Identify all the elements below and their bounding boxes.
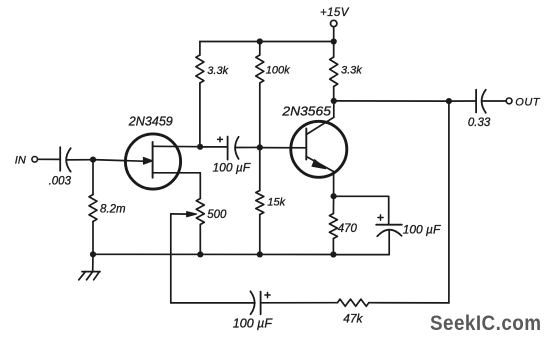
svg-text:OUT: OUT — [515, 97, 541, 109]
wire JFET source down to potentiometer — [199, 173, 201, 199]
svg-text:8.2m: 8.2m — [100, 204, 126, 216]
wire ground rail — [93, 253, 333, 255]
svg-text:15k: 15k — [267, 196, 285, 208]
svg-text:100 µF: 100 µF — [403, 222, 441, 236]
wire BJT emitter down to emitter node — [333, 172, 335, 197]
transistor Q2 2N3565 — [291, 117, 347, 177]
junction dot 15k / ground rail — [257, 251, 263, 257]
wire base node to BJT base — [260, 147, 307, 149]
resistor 8.2m — [89, 160, 97, 255]
ground — [79, 254, 100, 279]
wire top supply rail — [200, 41, 334, 43]
svg-text:100 µF: 100 µF — [213, 161, 251, 175]
junction dot top rail / +15V — [331, 38, 337, 44]
wire right feedback to 47k — [369, 302, 449, 304]
wire input capacitor to gate node — [66, 159, 93, 161]
capacitor 100 uF feedback — [250, 291, 270, 314]
wire wiper down to feedback line — [170, 214, 172, 303]
junction dot collector node — [331, 98, 337, 104]
svg-text:.003: .003 — [49, 175, 72, 187]
junction dot base node — [257, 144, 263, 150]
svg-text:3.3k: 3.3k — [341, 65, 362, 77]
potentiometer 500 — [171, 199, 205, 255]
power terminal +15V — [331, 20, 337, 26]
resistor 100k — [256, 42, 264, 148]
junction dot drain node — [197, 144, 203, 150]
capacitor 100 uF interstage — [218, 137, 239, 160]
svg-text:470: 470 — [338, 223, 358, 235]
svg-text:100 µF: 100 µF — [233, 317, 274, 331]
capacitor 100 uF emitter bypass — [376, 215, 402, 236]
wire output capacitor to OUT terminal — [482, 100, 506, 102]
resistor 470 — [329, 196, 337, 254]
junction dot 470 / ground rail — [330, 251, 336, 257]
resistor 3.3k (left, drain load) — [196, 42, 204, 147]
junction dot top rail / 100k — [257, 38, 263, 44]
svg-text:2N3565: 2N3565 — [281, 103, 332, 118]
terminal IN — [32, 157, 38, 163]
junction dot ground rail left — [90, 251, 96, 257]
wire feedback capacitor to wiper line — [171, 302, 255, 304]
resistor 47k — [337, 299, 368, 306]
capacitor .003 — [60, 147, 70, 172]
junction dot gate node — [90, 157, 96, 163]
wire IN terminal to input capacitor — [38, 158, 61, 160]
capacitor 0.33 — [476, 90, 486, 113]
wire 47k to feedback capacitor — [261, 302, 338, 304]
junction dot output node — [446, 98, 452, 104]
svg-text:IN: IN — [15, 155, 26, 167]
wire +15V terminal to top rail — [333, 27, 335, 42]
svg-text:+15V: +15V — [320, 7, 350, 19]
resistor 3.3k (right, collector load) — [330, 42, 338, 101]
wire bypass capacitor bottom to ground rail — [333, 230, 389, 255]
wire emitter node to bypass capacitor top — [334, 196, 389, 224]
svg-text:100k: 100k — [266, 65, 290, 77]
wire collector node to output junction — [334, 100, 449, 102]
junction dot potentiometer / ground rail — [197, 251, 203, 257]
svg-text:SeekIC.com: SeekIC.com — [430, 311, 542, 335]
wire interstage capacitor to base node — [235, 146, 260, 148]
svg-text:2N3459: 2N3459 — [128, 114, 173, 129]
svg-text:47k: 47k — [343, 311, 363, 325]
svg-text:3.3k: 3.3k — [207, 65, 228, 77]
wire gate node to JFET gate — [93, 160, 143, 162]
svg-text:0.33: 0.33 — [468, 117, 491, 129]
wire output node down right side — [448, 101, 450, 303]
resistor 15k — [256, 147, 264, 254]
terminal OUT — [506, 98, 512, 104]
junction dot emitter node — [331, 193, 337, 199]
JFET Q1 2N3459 — [125, 134, 200, 189]
wire drain node to interstage capacitor — [200, 146, 228, 148]
svg-text:500: 500 — [207, 209, 227, 221]
wire BJT collector up to collector node — [333, 101, 335, 117]
wire output node to output capacitor — [449, 100, 476, 102]
